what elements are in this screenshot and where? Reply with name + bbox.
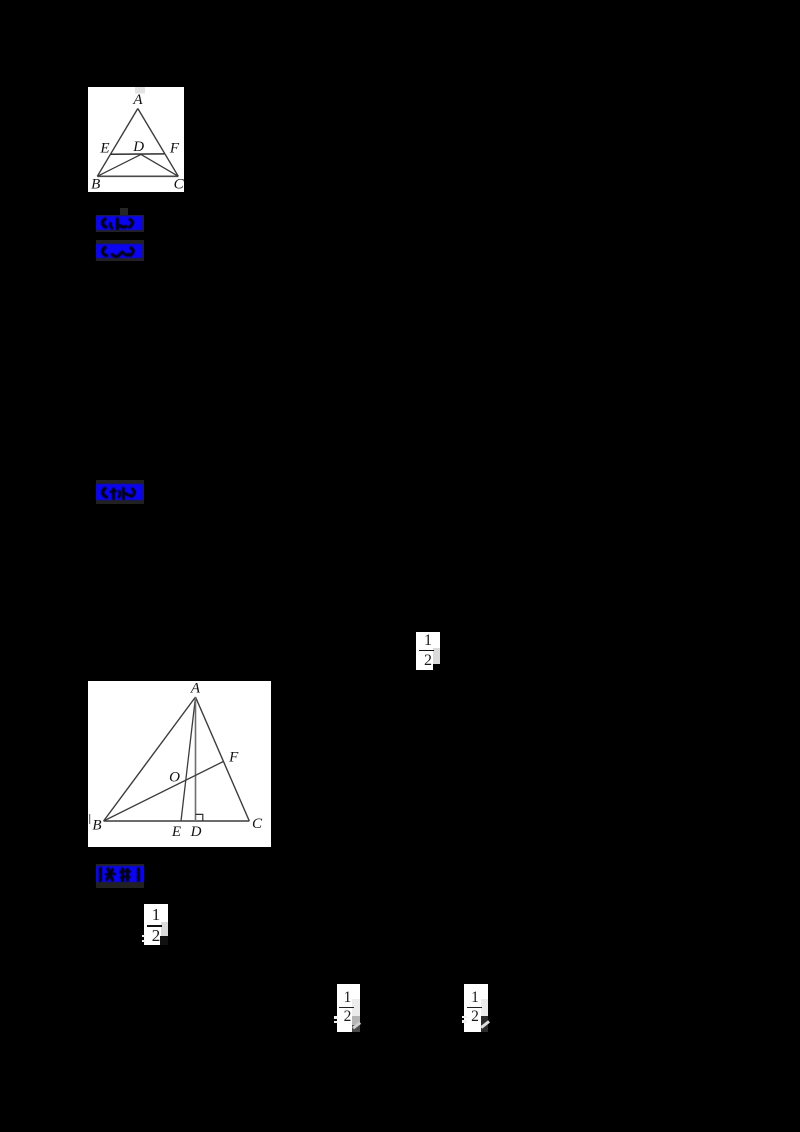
wire base BC <box>97 175 178 177</box>
blue label 1 <box>120 208 128 216</box>
wire side AB <box>104 697 196 821</box>
svg-text:B: B <box>92 818 101 834</box>
svg-text:A: A <box>190 681 201 697</box>
wire side AB <box>97 109 138 177</box>
gray smudge above label A <box>135 87 145 94</box>
svg-text:A: A <box>132 92 143 108</box>
svg-text:C: C <box>252 816 263 832</box>
wire line BF <box>104 762 224 822</box>
svg-text:F: F <box>169 141 180 157</box>
wire side AC <box>138 109 179 177</box>
wire altitude AD <box>195 697 197 821</box>
fraction 1/2 (first) <box>416 632 440 670</box>
wire side AC <box>196 697 250 821</box>
svg-text:B: B <box>91 177 100 193</box>
wire segment EF <box>111 153 165 155</box>
fraction 1/2 (fourth) <box>464 984 488 1032</box>
svg-text:F: F <box>228 750 239 766</box>
fraction 1/2 (third) <box>337 984 360 1032</box>
right angle mark at D <box>196 814 203 821</box>
wire base BC <box>104 820 250 822</box>
blue label 4 <box>96 864 144 888</box>
svg-text:D: D <box>190 824 202 840</box>
svg-text:E: E <box>99 141 109 157</box>
svg-text:E: E <box>171 824 181 840</box>
wire D to B <box>97 154 141 176</box>
edge tick artifact <box>89 814 91 824</box>
blue label 2 <box>96 240 144 261</box>
figure 1: triangle ABC with midsegment EF and cevians DB, DC <box>88 87 184 192</box>
wire D to C <box>141 154 178 176</box>
svg-text:C: C <box>174 177 184 193</box>
wire cevian AE <box>181 697 196 821</box>
svg-text:D: D <box>132 139 144 155</box>
fraction 1/2 (second) <box>144 904 168 945</box>
svg-text:O: O <box>169 770 180 786</box>
figure 2: triangle ABC with altitude AD, cevian AE, line BF <box>88 681 271 847</box>
blue label 3 <box>96 480 144 504</box>
